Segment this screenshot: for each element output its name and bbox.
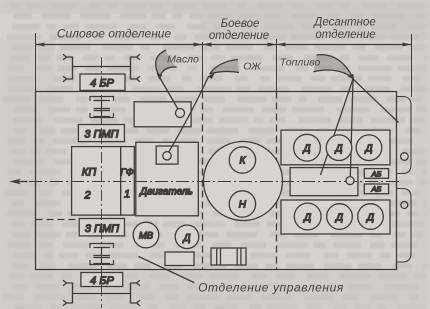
label Десантное отделение (312, 17, 376, 42)
battery АБ upper (364, 169, 388, 179)
svg-text:Д: Д (366, 213, 374, 224)
leader line Масло to oil tank filler (160, 78, 178, 110)
svg-text:Д: Д (335, 213, 343, 224)
rear upper door hinge circle (401, 153, 409, 161)
dashed bulkhead between Силовое and Боевое (202, 92, 204, 270)
dimension line Силовое отделение (36, 43, 203, 47)
engine Двигатель (136, 142, 199, 216)
trooper seats Д top row (294, 134, 382, 161)
Топливо callout arrow (314, 55, 355, 80)
svg-text:ГФ: ГФ (120, 168, 133, 179)
main clutch ГФ (120, 147, 134, 216)
ОЖ callout arrow (208, 60, 239, 80)
battery АБ lower (364, 184, 388, 194)
svg-text:Д: Д (303, 213, 311, 224)
svg-text:Силовое отделение: Силовое отделение (57, 27, 172, 41)
svg-text:Д: Д (334, 144, 342, 155)
dashed bulkhead between Боевое and Десантное (276, 92, 278, 270)
svg-text:ОЖ: ОЖ (243, 61, 262, 73)
expansion tank on engine (156, 146, 178, 164)
svg-text:АБ: АБ (370, 185, 381, 194)
leader line Топливо to tank filler (350, 79, 353, 177)
trooper seat Д front (175, 225, 199, 249)
dimension line Боевое отделение (203, 43, 277, 47)
svg-text:Боевое: Боевое (221, 18, 260, 30)
svg-text:Д: Д (182, 233, 190, 244)
bottom-right sprocket symbol (131, 280, 141, 306)
svg-text:отделение: отделение (315, 29, 375, 41)
dimension line Десантное отделение (277, 43, 412, 47)
top-left sprocket symbol (63, 54, 73, 82)
gearbox 4 БР top (80, 74, 125, 90)
fuel tank filler circle (346, 177, 354, 185)
svg-text:4 БР: 4 БР (90, 78, 114, 90)
leader line Отделение управления (138, 256, 194, 282)
gearbox 4 БР bottom (81, 273, 123, 287)
label Боевое отделение (209, 18, 269, 42)
leader line ОЖ to engine expansion tank (169, 77, 209, 153)
leader line Топливо to rear door (353, 79, 399, 123)
commander seat К (229, 147, 255, 173)
rear lower door hinge circle (401, 202, 408, 209)
gunner seat Н (229, 191, 255, 217)
troop row box top (281, 130, 390, 165)
leader line Топливо to tank (321, 79, 354, 175)
driver seat МВ (133, 222, 159, 248)
coupling bottom (90, 244, 114, 265)
extension tick between Боевое and Десантное (276, 39, 278, 92)
turret ring (204, 142, 283, 221)
gearbox КП (72, 147, 121, 216)
svg-text:1: 1 (124, 189, 130, 201)
steering unit З ПМП top (78, 125, 124, 142)
svg-text:3 ПМП: 3 ПМП (85, 223, 119, 235)
svg-text:2: 2 (83, 190, 90, 202)
bottom drive shaft (73, 293, 131, 295)
svg-text:Масло: Масло (167, 54, 199, 66)
troop row box bottom (281, 200, 390, 234)
trooper seats Д bottom row (294, 203, 383, 230)
svg-text:Двигатель: Двигатель (139, 187, 193, 198)
svg-text:Десантное: Десантное (312, 17, 376, 29)
svg-text:Н: Н (239, 200, 247, 211)
extension tick right (411, 34, 413, 97)
extension tick left (35, 33, 37, 92)
top drive shaft (73, 66, 131, 68)
dashed floor line front left (36, 219, 79, 221)
rear upper door (397, 97, 412, 174)
coupling top (90, 97, 114, 118)
svg-text:АБ: АБ (370, 169, 381, 178)
svg-text:МВ: МВ (139, 231, 154, 242)
svg-text:Д: Д (302, 144, 310, 155)
svg-text:КП: КП (82, 167, 96, 179)
drivetrain axis dash-dot vertical (101, 57, 103, 308)
direction-of-travel arrow (10, 179, 28, 185)
bottom-left sprocket symbol (63, 280, 73, 306)
rear lower door (397, 189, 412, 263)
extension tick between Силовое and Боевое (202, 42, 204, 92)
fuel tank (290, 168, 358, 196)
svg-text:отделение: отделение (209, 30, 269, 42)
top-right sprocket symbol (131, 54, 141, 82)
Масло callout arrow (156, 50, 177, 80)
svg-text:4 БР: 4 БР (90, 275, 114, 287)
heater unit (211, 248, 246, 265)
svg-text:Отделение управления: Отделение управления (198, 281, 344, 295)
equipment box front (165, 252, 194, 266)
steering unit З ПМП bottom (79, 219, 124, 236)
svg-text:Топливо: Топливо (280, 57, 321, 69)
oil tank (134, 102, 191, 127)
svg-text:Д: Д (364, 144, 372, 155)
hull outline (36, 92, 397, 270)
vehicle centerline dash-dot (29, 181, 400, 183)
